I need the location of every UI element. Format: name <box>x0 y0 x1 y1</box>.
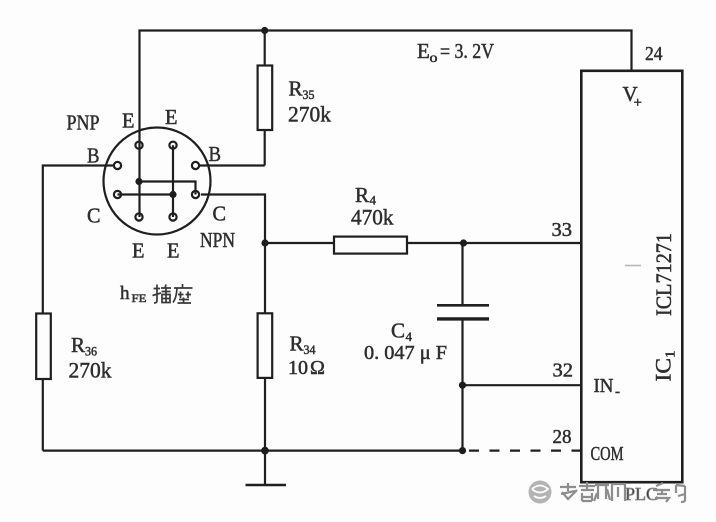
svg-text:IN: IN <box>594 375 614 397</box>
svg-text:h: h <box>120 283 130 304</box>
svg-text:B: B <box>87 144 100 168</box>
ground <box>246 451 287 485</box>
svg-text:E: E <box>165 105 178 129</box>
node socket dot1 <box>135 178 142 185</box>
svg-text:35: 35 <box>303 87 315 102</box>
node R4 left <box>261 239 268 246</box>
label Eo=3.2V <box>417 39 494 66</box>
wire socket internal E-right vertical <box>172 145 174 217</box>
watermark text <box>560 482 625 501</box>
svg-text:COM: COM <box>591 443 624 465</box>
svg-text:10Ω: 10Ω <box>288 357 325 379</box>
node bottom R34 <box>261 447 269 455</box>
svg-text:= 3. 2V: = 3. 2V <box>440 39 494 63</box>
label R34 <box>290 332 316 358</box>
capacitor C4 <box>437 243 489 451</box>
socket pin E bottom-left <box>135 213 142 220</box>
label R35 <box>289 77 315 103</box>
wire C4 to IC pin32 <box>463 384 582 386</box>
svg-text:36: 36 <box>85 344 97 359</box>
svg-text:470k: 470k <box>351 205 394 230</box>
label hFE socket chinese 插座 <box>153 284 193 303</box>
watermark remnant dash <box>625 265 641 267</box>
resistor R4 <box>265 237 464 254</box>
svg-text:33: 33 <box>552 219 573 241</box>
wire R4 node to IC pin33 <box>464 242 582 244</box>
svg-text:-: - <box>615 384 620 400</box>
svg-text:28: 28 <box>553 426 572 448</box>
node pin32 tap <box>459 382 466 389</box>
socket pin E bottom-right <box>169 213 176 220</box>
svg-text:270k: 270k <box>69 358 113 383</box>
node R4 right / C4 top <box>460 239 467 246</box>
socket pin E top-left <box>135 142 142 149</box>
svg-text:R: R <box>355 183 369 207</box>
svg-text:24: 24 <box>645 43 663 65</box>
svg-text:0. 047 μ F: 0. 047 μ F <box>364 342 447 364</box>
svg-text:NPN: NPN <box>200 228 235 252</box>
svg-text:FE: FE <box>132 293 147 305</box>
svg-text:270k: 270k <box>288 102 332 127</box>
socket pin B left <box>114 162 121 169</box>
svg-text:PNP: PNP <box>67 111 100 135</box>
svg-text:R: R <box>290 332 304 356</box>
svg-text:32: 32 <box>553 360 574 382</box>
socket pin E top-right <box>169 142 176 149</box>
IC U1 ICL7127 box <box>581 71 682 482</box>
label hFE socket <box>120 283 147 305</box>
label IN- <box>594 375 621 400</box>
label R4 <box>355 183 377 208</box>
resistor R36 <box>36 314 51 380</box>
svg-text:R: R <box>71 333 85 357</box>
watermark logo <box>529 481 552 504</box>
socket pin C left <box>114 191 121 198</box>
resistor R34 <box>258 243 273 451</box>
svg-text:E: E <box>132 239 145 263</box>
wire socket B-right to R35 <box>199 164 265 166</box>
node socket dot2 <box>169 191 176 198</box>
svg-text:PLC: PLC <box>625 484 658 504</box>
node bottom pin28 <box>459 447 466 454</box>
wire dashed to pin28 <box>463 450 582 452</box>
svg-text:R: R <box>289 77 303 101</box>
wire socket internal dot1 to C-right <box>139 182 196 195</box>
label C4 <box>391 319 413 345</box>
svg-text:C: C <box>87 204 101 228</box>
socket pin B right <box>192 162 199 169</box>
svg-text:34: 34 <box>304 342 316 357</box>
wire socket internal C-left to dot2 <box>118 193 174 195</box>
wire top bus <box>140 31 632 218</box>
resistor R35 <box>258 31 273 166</box>
svg-text:B: B <box>209 142 222 166</box>
node R35 top tap <box>261 27 268 34</box>
svg-text:C: C <box>213 202 227 226</box>
wire socket C-right to R4 node <box>201 195 265 244</box>
svg-text:E: E <box>122 109 135 133</box>
svg-text:ICL71271: ICL71271 <box>651 233 676 316</box>
label V+ <box>623 82 642 111</box>
svg-text:E: E <box>417 39 430 63</box>
socket XS hFE circle <box>104 128 211 235</box>
svg-text:E: E <box>167 239 180 263</box>
svg-text:+: + <box>634 95 642 111</box>
socket pin C right <box>192 191 199 198</box>
wire socket B-left to left bus <box>43 166 114 451</box>
svg-text:C: C <box>391 319 405 343</box>
svg-text:o: o <box>430 51 438 66</box>
wire bottom bus <box>43 450 463 452</box>
label R36 <box>71 333 97 359</box>
